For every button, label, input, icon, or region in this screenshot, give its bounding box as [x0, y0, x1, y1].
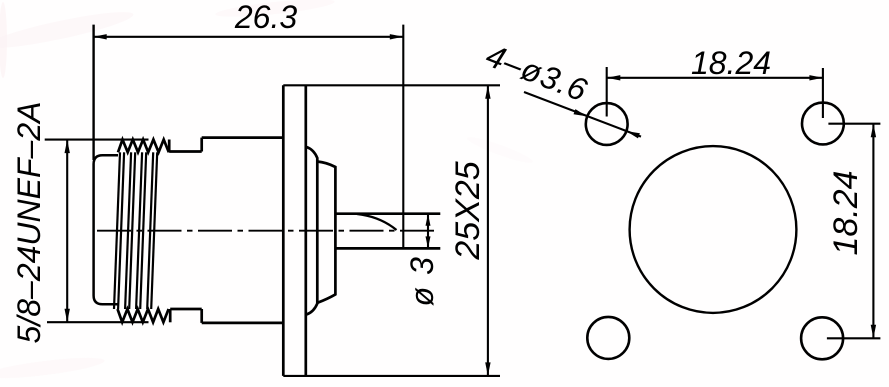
svg-text:26.3: 26.3 — [234, 0, 297, 35]
svg-text:ø 3: ø 3 — [404, 256, 440, 307]
svg-text:18.24: 18.24 — [827, 170, 865, 255]
svg-text:5/8–24UNEF–2A: 5/8–24UNEF–2A — [11, 102, 47, 344]
svg-text:25X25: 25X25 — [449, 161, 487, 260]
svg-text:18.24: 18.24 — [691, 45, 771, 81]
